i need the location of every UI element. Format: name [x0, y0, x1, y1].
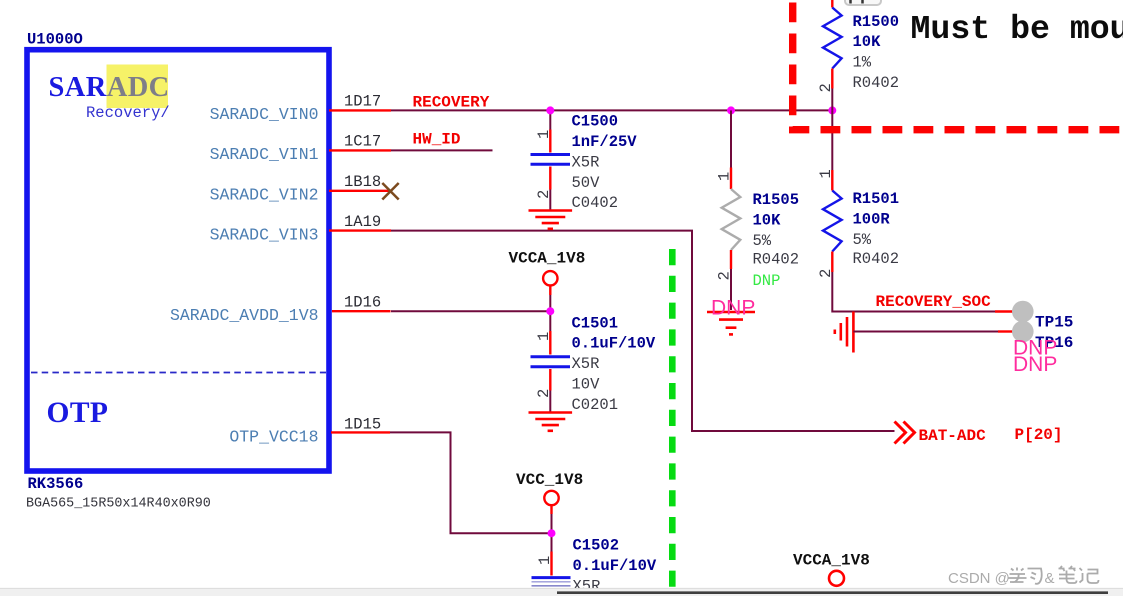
- value labels R1505: [753, 191, 800, 290]
- pin stub 1C17: [329, 149, 391, 151]
- svg-text:OTP_VCC18: OTP_VCC18: [229, 427, 318, 446]
- svg-text:5%: 5%: [753, 232, 772, 250]
- svg-text:1: 1: [716, 172, 734, 181]
- pin stub 1A19: [329, 229, 391, 231]
- watermark glyph xi: [1028, 569, 1042, 584]
- svg-text:RECOVERY_SOC: RECOVERY_SOC: [876, 293, 992, 311]
- svg-text:2: 2: [817, 83, 835, 92]
- svg-text:&: &: [1045, 570, 1055, 587]
- svg-text:C1502: C1502: [573, 537, 620, 555]
- wire to TP16: [853, 331, 998, 333]
- svg-text:0.1uF/10V: 0.1uF/10V: [572, 335, 656, 353]
- svg-text:5%: 5%: [853, 231, 872, 249]
- svg-text:1D17: 1D17: [344, 93, 381, 111]
- svg-text:R1501: R1501: [853, 190, 900, 208]
- svg-text:RK3566: RK3566: [28, 475, 84, 493]
- svg-text:10K: 10K: [853, 33, 882, 51]
- capacitor C1501: [531, 311, 571, 411]
- panel edge line: [557, 591, 1108, 594]
- svg-text:R0402: R0402: [753, 251, 800, 269]
- svg-text:2: 2: [535, 190, 553, 199]
- svg-text:1nF/25V: 1nF/25V: [572, 133, 638, 151]
- watermark glyph ji: [1080, 568, 1099, 583]
- off-page connector BAT-ADC: [895, 422, 915, 444]
- pin stub 1B18: [329, 190, 391, 192]
- svg-text:2: 2: [716, 271, 734, 280]
- ground below C1500: [529, 211, 573, 229]
- green dashed separator: [669, 249, 676, 596]
- svg-text:1A19: 1A19: [344, 213, 381, 231]
- svg-text:1D15: 1D15: [344, 416, 381, 434]
- svg-text:BGA565_15R50x14R40x0R90: BGA565_15R50x14R40x0R90: [26, 497, 211, 512]
- svg-text:50V: 50V: [572, 174, 601, 192]
- svg-text:C1501: C1501: [572, 314, 619, 332]
- svg-text:1D16: 1D16: [344, 293, 381, 311]
- value labels R1500: [853, 13, 900, 92]
- power symbol VCCA_1V8 upper: [509, 250, 586, 312]
- svg-text:SARADC: SARADC: [49, 72, 170, 103]
- svg-text:X5R: X5R: [572, 355, 600, 373]
- watermark glyph bi: [1059, 566, 1077, 583]
- rotated ground at TP16: [835, 312, 854, 353]
- red dashed boundary marker: [793, 3, 1123, 130]
- watermark glyph xue: [1008, 568, 1027, 583]
- value labels C1500: [572, 113, 638, 213]
- svg-text:DNP: DNP: [753, 272, 781, 290]
- wire SARADC_AVDD_1V8: [391, 310, 550, 312]
- svg-text:1%: 1%: [853, 54, 872, 72]
- svg-text:1C17: 1C17: [344, 133, 381, 151]
- svg-text:HW_ID: HW_ID: [413, 131, 461, 149]
- svg-text:BAT-ADC: BAT-ADC: [919, 427, 987, 445]
- yellow highlight over ADC: [107, 65, 169, 109]
- svg-text:2: 2: [817, 269, 835, 278]
- svg-text:TP15: TP15: [1035, 314, 1073, 332]
- svg-text:X5R: X5R: [572, 153, 600, 171]
- svg-text:VCC_1V8: VCC_1V8: [516, 471, 583, 489]
- svg-text:C0201: C0201: [572, 396, 619, 414]
- svg-text:VCCA_1V8: VCCA_1V8: [793, 552, 870, 570]
- wire OTP_VCC18: [390, 432, 552, 533]
- svg-text:R1505: R1505: [753, 191, 800, 209]
- wire RECOVERY net: [391, 109, 832, 111]
- pin stub 1D17: [329, 109, 391, 111]
- svg-text:U1000O: U1000O: [27, 31, 83, 49]
- resistor R1500: [823, 0, 842, 110]
- partially visible value box above R1500: [845, 0, 881, 5]
- svg-text:Must be mou: Must be mou: [911, 10, 1123, 48]
- svg-text:SARADC_AVDD_1V8: SARADC_AVDD_1V8: [170, 306, 319, 325]
- svg-text:R1500: R1500: [853, 13, 900, 31]
- svg-text:P[20]: P[20]: [1015, 426, 1063, 444]
- power symbol VCC_1V8: [516, 471, 583, 533]
- junction node dots: [546, 106, 836, 537]
- capacitor C1502: [532, 533, 571, 586]
- power symbol VCCA_1V8 lower right: [793, 552, 870, 586]
- svg-text:SARADC_VIN2: SARADC_VIN2: [210, 186, 319, 205]
- test point TP16: [1012, 321, 1034, 343]
- svg-text:Recovery/: Recovery/: [86, 104, 170, 122]
- svg-text:R0402: R0402: [853, 250, 900, 268]
- svg-text:SARADC_VIN3: SARADC_VIN3: [210, 226, 319, 245]
- svg-text:SARADC_VIN0: SARADC_VIN0: [210, 105, 319, 124]
- no-connect X on SARADC_VIN2: [382, 183, 398, 200]
- svg-text:2: 2: [535, 389, 553, 398]
- svg-text:1: 1: [535, 332, 553, 341]
- svg-text:DNP: DNP: [1013, 353, 1057, 376]
- wire SARADC_VIN3 to BAT-ADC: [391, 231, 895, 431]
- svg-text:SARADC_VIN1: SARADC_VIN1: [210, 145, 319, 164]
- pin stub 1D15: [331, 431, 390, 433]
- svg-text:1: 1: [817, 169, 835, 178]
- svg-text:10V: 10V: [572, 376, 601, 394]
- svg-text:0.1uF/10V: 0.1uF/10V: [573, 557, 657, 575]
- wire HW_ID net: [391, 149, 493, 151]
- resistor R1505 (DNP): [722, 110, 741, 310]
- svg-text:1B18: 1B18: [344, 173, 381, 191]
- value labels R1501: [853, 190, 900, 268]
- svg-text:1: 1: [536, 556, 554, 565]
- bottom toolbar strip: [0, 588, 1123, 596]
- svg-text:C1500: C1500: [572, 113, 619, 131]
- test point TP15: [1012, 301, 1034, 323]
- svg-text:C0402: C0402: [572, 194, 619, 212]
- svg-text:VCCA_1V8: VCCA_1V8: [509, 250, 586, 268]
- svg-text:RECOVERY: RECOVERY: [413, 93, 490, 111]
- resistor R1501: [823, 110, 1013, 311]
- svg-text:R0402: R0402: [853, 74, 900, 92]
- section separator dashed line: [31, 372, 326, 374]
- ground below C1501: [529, 413, 573, 431]
- svg-text:100R: 100R: [853, 210, 891, 228]
- svg-text:OTP: OTP: [47, 397, 109, 429]
- svg-text:1: 1: [535, 130, 553, 139]
- value labels C1502: [573, 537, 657, 596]
- svg-text:CSDN @: CSDN @: [948, 570, 1010, 587]
- ground below R1505: [707, 312, 755, 334]
- svg-text:DNP: DNP: [711, 296, 755, 319]
- pin stub 1D16: [332, 310, 391, 312]
- value labels C1501: [572, 314, 656, 414]
- svg-text:10K: 10K: [753, 211, 782, 229]
- op-amp U1000 IC body SARADC/OTP block: [27, 50, 329, 471]
- capacitor C1500: [531, 110, 571, 209]
